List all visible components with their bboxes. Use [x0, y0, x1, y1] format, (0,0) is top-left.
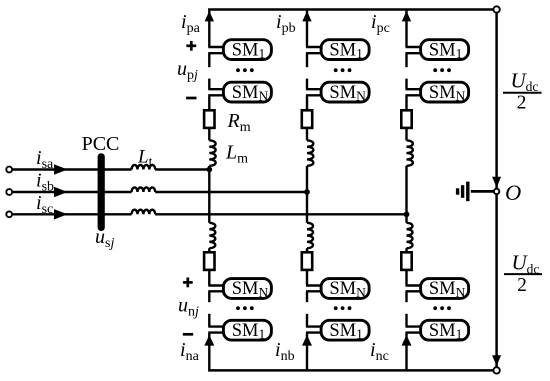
wire AC line sb: [12, 191, 132, 193]
wire bottom DC bus: [208, 369, 497, 372]
module SMN upper arm leg c: [421, 82, 469, 103]
wire leg a inductor to lower resistor: [208, 248, 210, 252]
wire lower SM1 lower lead leg a: [208, 331, 225, 333]
wire arrow ina: [204, 335, 214, 346]
inductor Lm upper arm leg a: [209, 140, 215, 165]
label - upper arm: [186, 97, 196, 100]
wire leg b resistor to inductor: [306, 128, 308, 140]
wire leg c below SM1: [405, 53, 407, 67]
dots upper arm leg b: [334, 68, 352, 72]
module SM1 lower arm leg b: [321, 320, 369, 341]
wire leg a above SMN: [208, 79, 210, 90]
resistor Rm lower arm leg a: [204, 252, 214, 270]
wire lower SM1 upper lead leg a: [208, 325, 225, 327]
node AC source terminal sa: [6, 167, 12, 173]
wire lower SMN upper lead leg b: [306, 284, 323, 286]
node O: [494, 189, 499, 194]
wire arrow isc: [54, 209, 68, 219]
bus bar PCC: [98, 157, 105, 228]
node DC+ terminal: [493, 6, 499, 12]
wire arrow inc: [402, 335, 412, 346]
wire leg c bottom segment: [405, 333, 407, 371]
wire leg b above SMN: [306, 79, 308, 90]
wire leg b top segment: [306, 10, 308, 48]
wire lower SM1 lower lead leg c: [406, 331, 423, 333]
wire SM1 upper lead leg b: [306, 46, 323, 48]
wire SMN upper lead leg b: [306, 88, 323, 90]
wire SM1 lower lead leg c: [406, 52, 423, 54]
wire AC line sa: [12, 168, 132, 170]
svg-text:O: O: [505, 180, 521, 205]
wire AC line sc: [12, 213, 132, 215]
wire leg a below lower SMN: [208, 291, 210, 302]
node junction phase c: [404, 211, 410, 217]
dots lower arm leg b: [334, 306, 352, 310]
inductor Lt phase a: [132, 165, 156, 170]
wire leg c above SMN: [405, 79, 407, 90]
wire lower SMN lower lead leg a: [208, 290, 225, 292]
wire leg b middle segment: [306, 166, 308, 223]
wire SMN lower lead leg c: [406, 94, 423, 96]
wire leg c below lower SMN: [405, 291, 407, 302]
label + upper arm: [186, 41, 196, 51]
wire lower SMN upper lead leg a: [208, 284, 225, 286]
wire leg a resistor to inductor: [208, 128, 210, 140]
wire lower SM1 lower lead leg b: [306, 331, 323, 333]
inductor Lm upper arm leg b: [307, 140, 313, 165]
resistor Rm lower arm leg b: [302, 252, 312, 270]
wire SM1 lower lead leg a: [208, 52, 225, 54]
wire SM1 upper lead leg c: [406, 46, 423, 48]
module SMN lower arm leg c: [421, 279, 469, 300]
dots lower arm leg a: [236, 306, 254, 310]
resistor Rm upper arm leg b: [302, 110, 312, 128]
node DC- terminal: [493, 367, 499, 373]
wire leg b lower resistor to SMN: [306, 270, 308, 286]
wire SM1 lower lead leg b: [306, 52, 323, 54]
module SMN lower arm leg a: [223, 279, 271, 300]
wire SMN lower lead leg a: [208, 94, 225, 96]
wire leg a above lower SM1: [208, 314, 210, 327]
wire lower SMN lower lead leg b: [306, 290, 323, 292]
inductor Lm lower arm leg b: [307, 223, 313, 248]
inductor Lm lower arm leg a: [209, 223, 215, 248]
module SM1 upper arm leg a: [223, 40, 271, 61]
wire arrow ipc: [402, 11, 411, 21]
wire leg a middle segment: [208, 166, 210, 223]
wire SMN lower lead leg b: [306, 94, 323, 96]
node AC source terminal sc: [6, 211, 12, 217]
module SMN upper arm leg a: [223, 82, 271, 103]
module SMN lower arm leg b: [321, 279, 369, 300]
wire leg c to resistor: [405, 95, 407, 110]
wire leg b below SM1: [306, 53, 308, 67]
resistor Rm lower arm leg c: [401, 252, 411, 270]
wire leg c resistor to inductor: [405, 128, 407, 140]
ground: [458, 182, 494, 202]
wire leg a lower resistor to SMN: [208, 270, 210, 286]
svg-text:PCC: PCC: [82, 133, 120, 155]
label Udc/2 lower: [504, 251, 542, 296]
wire lower SMN lower lead leg c: [406, 290, 423, 292]
inductor Lm lower arm leg c: [407, 223, 413, 248]
wire arrow ipa: [205, 11, 214, 21]
module SM1 upper arm leg c: [421, 40, 469, 61]
wire arrow into node O: [492, 177, 501, 188]
wire lower SM1 upper lead leg c: [406, 325, 423, 327]
wire leg c above lower SM1: [405, 314, 407, 327]
wire leg b below lower SMN: [306, 291, 308, 302]
wire right DC bus upper segment: [495, 13, 498, 189]
wire arrow into DC- terminal: [492, 355, 501, 366]
wire leg b inductor to lower resistor: [306, 248, 308, 252]
dots upper arm leg a: [236, 68, 254, 72]
wire leg a to resistor: [208, 95, 210, 110]
wire top DC bus: [208, 8, 497, 11]
wire leg b bottom segment: [306, 333, 308, 371]
wire leg c middle segment: [405, 166, 407, 223]
wire SMN upper lead leg a: [208, 88, 225, 90]
wire leg c lower resistor to SMN: [405, 270, 407, 286]
module SM1 lower arm leg a: [223, 320, 271, 341]
label + lower arm: [183, 278, 193, 288]
wire leg b above lower SM1: [306, 314, 308, 327]
dots lower arm leg c: [433, 306, 451, 310]
wire lower SMN upper lead leg c: [406, 284, 423, 286]
wire arrow ipb: [302, 11, 311, 21]
node AC source terminal sb: [6, 189, 12, 195]
svg-text:2: 2: [517, 275, 527, 296]
wire sb to leg b: [155, 191, 307, 193]
wire leg a below SM1: [208, 53, 210, 67]
svg-text:2: 2: [517, 92, 527, 113]
wire arrow isb: [54, 187, 68, 197]
node junction phase b: [304, 189, 310, 195]
inductor Lt phase b: [132, 187, 156, 192]
wire arrow isa: [54, 164, 68, 174]
wire SM1 upper lead leg a: [208, 46, 225, 48]
wire SMN upper lead leg c: [406, 88, 423, 90]
wire leg c inductor to lower resistor: [405, 248, 407, 252]
label - lower arm: [183, 333, 193, 336]
wire right DC bus lower segment: [495, 194, 498, 367]
module SM1 lower arm leg c: [421, 320, 469, 341]
inductor Lm upper arm leg c: [407, 140, 413, 165]
wire sc to leg c: [155, 213, 406, 215]
wire arrow inb: [302, 335, 312, 346]
wire leg a bottom segment: [208, 333, 210, 371]
dots upper arm leg c: [433, 68, 451, 72]
module SMN upper arm leg b: [321, 82, 369, 103]
wire lower SM1 upper lead leg b: [306, 325, 323, 327]
node junction phase a: [206, 167, 212, 173]
inductor Lt phase c: [132, 210, 156, 215]
wire leg c top segment: [405, 10, 407, 48]
wire leg a top segment: [208, 10, 210, 48]
resistor Rm upper arm leg a: [204, 110, 214, 128]
resistor Rm upper arm leg c: [401, 110, 411, 128]
label Udc/2 upper: [503, 69, 542, 114]
wire sa to leg a: [155, 168, 209, 170]
wire leg b to resistor: [306, 95, 308, 110]
module SM1 upper arm leg b: [321, 40, 369, 61]
